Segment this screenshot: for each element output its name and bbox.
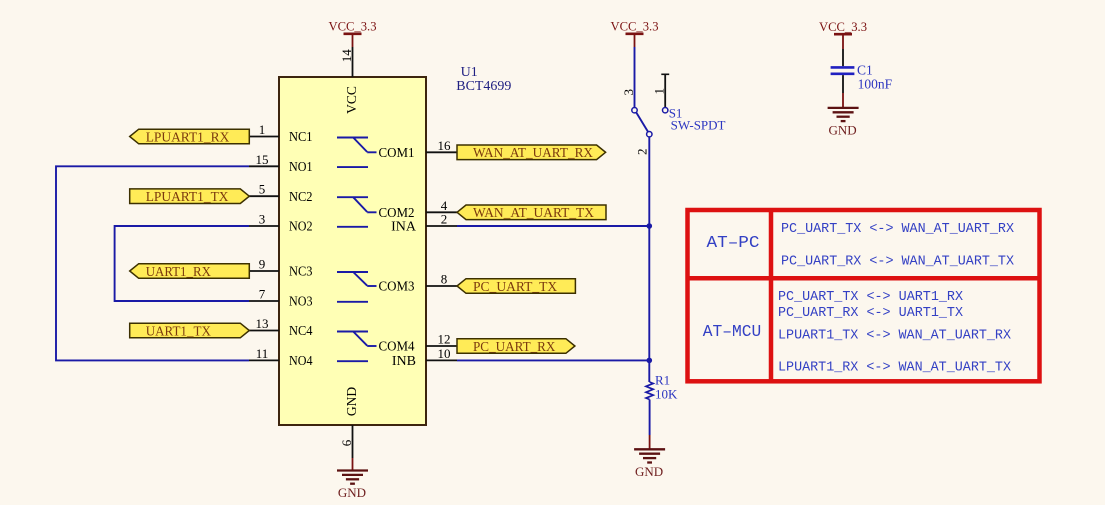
svg-text:PC_UART_TX: PC_UART_TX bbox=[473, 280, 557, 295]
svg-text:GND: GND bbox=[829, 122, 857, 137]
svg-text:LPUART1_RX: LPUART1_RX bbox=[146, 130, 230, 145]
svg-text:15: 15 bbox=[256, 152, 269, 167]
svg-text:NO1: NO1 bbox=[289, 160, 313, 175]
svg-text:NO2: NO2 bbox=[289, 220, 313, 235]
svg-text:16: 16 bbox=[438, 138, 452, 153]
svg-text:GND: GND bbox=[344, 387, 359, 416]
svg-text:R1: R1 bbox=[655, 372, 670, 387]
svg-text:NC2: NC2 bbox=[289, 190, 313, 205]
svg-text:10: 10 bbox=[438, 346, 451, 361]
svg-text:1: 1 bbox=[259, 122, 266, 137]
svg-text:5: 5 bbox=[259, 182, 266, 197]
svg-text:COM3: COM3 bbox=[379, 280, 415, 295]
svg-text:AT–PC: AT–PC bbox=[707, 234, 760, 253]
svg-text:LPUART1_TX: LPUART1_TX bbox=[146, 190, 229, 205]
svg-text:VCC_3.3: VCC_3.3 bbox=[819, 19, 867, 34]
svg-text:BCT4699: BCT4699 bbox=[456, 79, 511, 94]
svg-text:UART1_TX: UART1_TX bbox=[146, 324, 211, 339]
svg-text:VCC_3.3: VCC_3.3 bbox=[611, 19, 659, 34]
svg-text:PC_UART_RX <-> UART1_TX: PC_UART_RX <-> UART1_TX bbox=[778, 306, 963, 321]
svg-text:UART1_RX: UART1_RX bbox=[146, 265, 211, 280]
svg-text:14: 14 bbox=[339, 49, 354, 63]
svg-text:1: 1 bbox=[651, 88, 666, 95]
svg-text:AT–MCU: AT–MCU bbox=[703, 323, 762, 342]
svg-text:COM1: COM1 bbox=[379, 146, 415, 161]
svg-text:PC_UART_RX: PC_UART_RX bbox=[473, 340, 555, 355]
svg-text:NC3: NC3 bbox=[289, 265, 313, 280]
svg-text:WAN_AT_UART_TX: WAN_AT_UART_TX bbox=[473, 206, 594, 221]
svg-text:PC_UART_RX <-> WAN_AT_UART_TX: PC_UART_RX <-> WAN_AT_UART_TX bbox=[781, 255, 1014, 270]
svg-text:LPUART1_TX <-> WAN_AT_UART_RX: LPUART1_TX <-> WAN_AT_UART_RX bbox=[778, 329, 1011, 344]
svg-text:SW-SPDT: SW-SPDT bbox=[671, 118, 726, 133]
svg-text:2: 2 bbox=[635, 149, 650, 156]
svg-text:6: 6 bbox=[339, 439, 354, 446]
svg-text:11: 11 bbox=[256, 346, 269, 361]
svg-text:C1: C1 bbox=[857, 63, 873, 78]
svg-text:VCC_3.3: VCC_3.3 bbox=[329, 19, 377, 34]
svg-text:GND: GND bbox=[635, 464, 663, 479]
svg-text:13: 13 bbox=[256, 316, 269, 331]
svg-text:100nF: 100nF bbox=[858, 77, 893, 92]
svg-text:GND: GND bbox=[338, 485, 366, 500]
svg-text:10K: 10K bbox=[655, 387, 678, 402]
svg-text:LPUART1_RX <-> WAN_AT_UART_TX: LPUART1_RX <-> WAN_AT_UART_TX bbox=[778, 360, 1011, 375]
svg-text:INA: INA bbox=[391, 220, 417, 235]
svg-text:WAN_AT_UART_RX: WAN_AT_UART_RX bbox=[473, 146, 593, 161]
svg-text:NO3: NO3 bbox=[289, 295, 313, 310]
svg-text:NO4: NO4 bbox=[289, 354, 313, 369]
svg-text:3: 3 bbox=[259, 212, 266, 227]
svg-text:3: 3 bbox=[621, 89, 636, 96]
svg-text:INB: INB bbox=[392, 354, 416, 369]
svg-text:PC_UART_TX <-> WAN_AT_UART_RX: PC_UART_TX <-> WAN_AT_UART_RX bbox=[781, 222, 1014, 237]
svg-text:9: 9 bbox=[259, 257, 266, 272]
svg-text:NC1: NC1 bbox=[289, 130, 313, 145]
svg-text:VCC: VCC bbox=[344, 86, 359, 114]
svg-text:PC_UART_TX <-> UART1_RX: PC_UART_TX <-> UART1_RX bbox=[778, 290, 963, 305]
svg-text:COM4: COM4 bbox=[379, 340, 415, 355]
svg-text:8: 8 bbox=[441, 272, 448, 287]
svg-text:NC4: NC4 bbox=[289, 324, 313, 339]
svg-text:7: 7 bbox=[259, 287, 266, 302]
svg-text:12: 12 bbox=[438, 332, 451, 347]
svg-text:2: 2 bbox=[441, 212, 448, 227]
